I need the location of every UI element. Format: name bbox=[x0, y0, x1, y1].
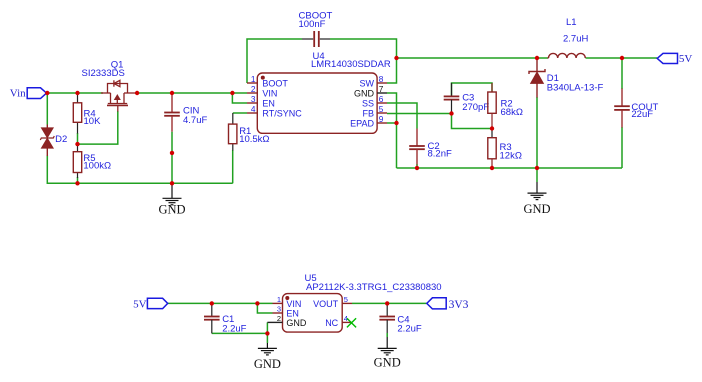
svg-text:EN: EN bbox=[286, 308, 299, 318]
wire Vin rail top-left bbox=[47, 92, 248, 94]
svg-text:3: 3 bbox=[277, 305, 281, 314]
wire C2 bottom to rail bbox=[416, 164, 418, 168]
svg-text:8: 8 bbox=[379, 74, 384, 84]
svg-text:9: 9 bbox=[379, 114, 384, 124]
wire EN branch bbox=[232, 93, 247, 103]
wire COUT branch bbox=[621, 58, 623, 89]
wire R1 bottom to rail bbox=[232, 150, 234, 183]
svg-text:1: 1 bbox=[251, 74, 256, 84]
svg-text:7: 7 bbox=[379, 84, 384, 94]
svg-text:GND: GND bbox=[158, 203, 185, 217]
wire main output bbox=[397, 57, 548, 59]
svg-text:68kΩ: 68kΩ bbox=[501, 107, 523, 118]
junction COUT top bbox=[620, 56, 624, 60]
svg-text:Vin: Vin bbox=[10, 88, 26, 100]
junction C1 top bbox=[210, 301, 214, 305]
svg-text:2.2uF: 2.2uF bbox=[397, 324, 421, 335]
wire R4 bottom to junction bbox=[77, 133, 79, 144]
svg-text:5: 5 bbox=[344, 295, 348, 304]
ground symbol C4 bbox=[374, 337, 401, 370]
svg-text:2: 2 bbox=[251, 84, 256, 94]
junction C2 rail bbox=[415, 166, 419, 170]
svg-text:10.5kΩ: 10.5kΩ bbox=[239, 134, 269, 145]
IC U4 bbox=[247, 51, 391, 133]
svg-text:4.7uF: 4.7uF bbox=[183, 115, 207, 126]
junction EN-VIN bbox=[230, 91, 234, 95]
wire gnd stem U5 bbox=[266, 333, 268, 343]
svg-text:VIN: VIN bbox=[286, 299, 301, 309]
wire right ground rail bbox=[397, 167, 623, 169]
wire D1 anode down bbox=[536, 97, 538, 168]
wire EPAD stub link bbox=[387, 122, 397, 124]
svg-text:EPAD: EPAD bbox=[350, 119, 374, 129]
wire U5 gnd pin down bbox=[266, 322, 268, 333]
capacitor CIN bbox=[164, 93, 207, 132]
svg-text:LMR14030SDDAR: LMR14030SDDAR bbox=[311, 59, 391, 70]
wire C3 R2 top link bbox=[452, 83, 493, 96]
junction R3 rail bbox=[490, 166, 494, 170]
junction EN branch bbox=[255, 301, 259, 305]
svg-text:12kΩ: 12kΩ bbox=[500, 151, 522, 162]
wire C1 bottom link bbox=[212, 332, 268, 334]
wire R5 bottom to rail bbox=[77, 177, 79, 183]
svg-text:GND: GND bbox=[374, 356, 401, 370]
junction C4 top bbox=[385, 301, 389, 305]
diode D2 TVS bbox=[40, 125, 67, 157]
svg-text:8.2nF: 8.2nF bbox=[428, 149, 452, 160]
ground symbol top-left bbox=[158, 183, 185, 216]
end of top wires bbox=[168, 303, 427, 343]
svg-text:10K: 10K bbox=[84, 116, 102, 127]
junction CIN top bbox=[170, 91, 174, 95]
svg-text:22uF: 22uF bbox=[631, 109, 653, 120]
wire FB to R2 R3 junction bbox=[452, 114, 493, 129]
wire gate link bbox=[78, 111, 118, 144]
svg-text:5V: 5V bbox=[679, 53, 693, 65]
svg-text:2.7uH: 2.7uH bbox=[563, 34, 588, 45]
svg-text:BOOT: BOOT bbox=[262, 79, 288, 89]
wire SW to junction bbox=[387, 59, 397, 83]
wire D2 to left rail bbox=[47, 156, 232, 184]
svg-text:SW: SW bbox=[360, 79, 375, 89]
ground symbol top-right bbox=[523, 182, 550, 216]
junction D1 GND rail bbox=[535, 166, 539, 170]
capacitor C4 bbox=[379, 303, 421, 334]
wire FB to C3 junction bbox=[387, 113, 452, 115]
junction Vin bbox=[45, 91, 49, 95]
svg-text:GND: GND bbox=[286, 318, 307, 328]
inductor L1 bbox=[548, 17, 589, 58]
wire SS to C2 bbox=[387, 103, 417, 129]
svg-text:L1: L1 bbox=[566, 17, 577, 28]
wire GND pin7 down to rail bbox=[387, 93, 397, 168]
wire CBOOT left bbox=[247, 39, 302, 83]
junction dots top bbox=[45, 56, 624, 186]
junction dots bottom bbox=[210, 301, 390, 335]
svg-text:FB: FB bbox=[362, 109, 374, 119]
capacitor C2 bbox=[409, 129, 452, 165]
junction CIN rail bbox=[170, 181, 174, 185]
wire 5V to U5 bbox=[168, 302, 273, 304]
svg-text:3: 3 bbox=[251, 94, 256, 104]
svg-text:5V: 5V bbox=[133, 299, 147, 311]
svg-text:AP2112K-3.3TRG1_C23380830: AP2112K-3.3TRG1_C23380830 bbox=[306, 282, 442, 293]
capacitor COUT bbox=[614, 89, 658, 128]
junction CIN mid bbox=[170, 151, 174, 155]
resistor R5 bbox=[73, 144, 111, 178]
no-connect X on pin 4 bbox=[347, 318, 356, 327]
capacitor C1 bbox=[204, 303, 247, 334]
svg-text:GND: GND bbox=[354, 89, 375, 99]
ground symbol U5 bbox=[254, 343, 281, 371]
svg-text:SS: SS bbox=[362, 99, 374, 109]
IC U5 bbox=[267, 273, 441, 332]
resistor R1 bbox=[229, 113, 270, 151]
junction R2 R3 bbox=[490, 126, 494, 130]
wire CIN bottom to rail bbox=[171, 132, 173, 184]
junction EPAD bbox=[394, 121, 398, 125]
junction R4 R5 gate bbox=[75, 142, 79, 146]
diode D1 schottky bbox=[529, 58, 604, 98]
junction D1 top bbox=[535, 56, 539, 60]
junction R5 rail bbox=[75, 181, 79, 185]
wire D2 branch vertical bbox=[46, 93, 48, 125]
wire EN branch U5 bbox=[257, 303, 272, 313]
wire RT/SYNC branch bbox=[233, 112, 247, 114]
transistor Q1 bbox=[82, 60, 138, 112]
wire gnd stem right rail bbox=[536, 168, 538, 182]
svg-text:SI2333DS: SI2333DS bbox=[82, 68, 125, 79]
svg-text:100nF: 100nF bbox=[299, 19, 326, 30]
svg-text:B340LA-13-F: B340LA-13-F bbox=[547, 83, 604, 94]
svg-text:270pF: 270pF bbox=[462, 102, 489, 113]
wire VOUT to 3V3 bbox=[352, 302, 427, 304]
capacitor CBOOT bbox=[299, 11, 333, 48]
wire CBOOT right bbox=[330, 39, 397, 58]
junction SW node bbox=[394, 56, 398, 60]
svg-text:100kΩ: 100kΩ bbox=[83, 161, 111, 172]
svg-text:3V3: 3V3 bbox=[449, 299, 469, 311]
svg-text:6: 6 bbox=[379, 94, 384, 104]
net flag 3V3 bbox=[427, 298, 469, 311]
resistor R4 bbox=[73, 93, 101, 134]
svg-text:2: 2 bbox=[277, 314, 281, 323]
svg-text:VIN: VIN bbox=[262, 89, 277, 99]
svg-text:1: 1 bbox=[277, 295, 281, 304]
svg-text:GND: GND bbox=[523, 202, 550, 216]
svg-text:EN: EN bbox=[262, 99, 275, 109]
junction R4 top bbox=[75, 91, 79, 95]
capacitor C3 bbox=[444, 83, 490, 114]
svg-text:2.2uF: 2.2uF bbox=[222, 324, 246, 335]
svg-text:D2: D2 bbox=[55, 134, 67, 145]
svg-text:4: 4 bbox=[251, 104, 256, 114]
junction C1 GND bbox=[265, 331, 269, 335]
junction Q1 drain bbox=[135, 91, 139, 95]
svg-text:5: 5 bbox=[379, 104, 384, 114]
net flag 5V top right bbox=[657, 53, 692, 65]
svg-text:GND: GND bbox=[254, 357, 281, 371]
net flag Vin bbox=[10, 88, 47, 100]
net flag 5V bottom bbox=[133, 298, 168, 310]
svg-text:VOUT: VOUT bbox=[313, 299, 339, 309]
svg-text:NC: NC bbox=[325, 318, 338, 328]
resistor R3 bbox=[488, 129, 522, 169]
junction C3 FB bbox=[449, 111, 453, 115]
wire C4 green bit bbox=[386, 333, 388, 337]
resistor R2 bbox=[488, 83, 523, 129]
svg-text:RT/SYNC: RT/SYNC bbox=[262, 109, 302, 119]
